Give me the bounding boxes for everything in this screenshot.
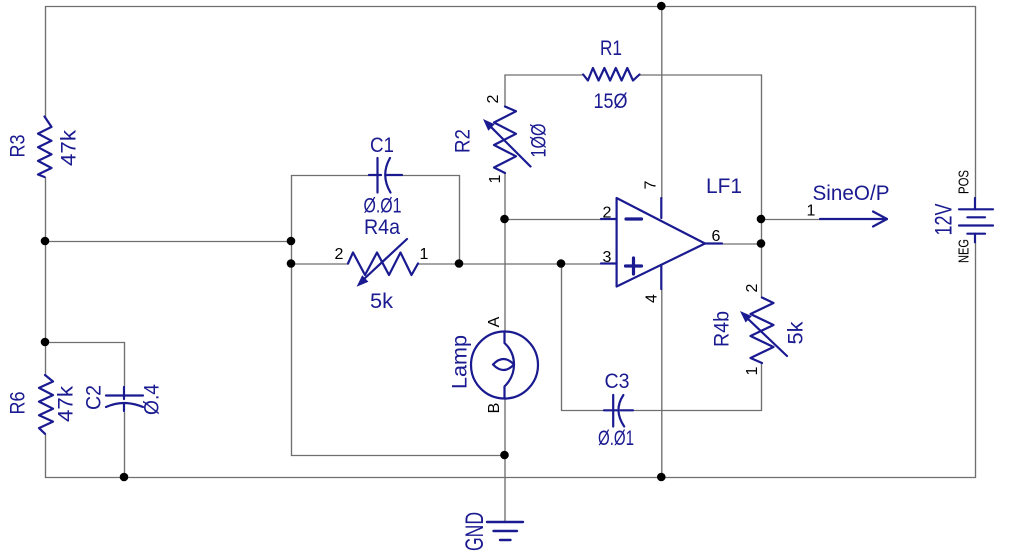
wire C2 top lead (124, 343, 126, 387)
svg-text:R2: R2 (452, 129, 475, 153)
wire column x661 upper (pin 7 supply) (661, 7, 663, 199)
svg-text:7: 7 (643, 180, 660, 189)
wire right rail upper (975, 7, 977, 199)
wire R4a left lead (292, 263, 349, 265)
svg-text:3: 3 (603, 249, 612, 266)
junction dot op-amp output (757, 239, 766, 248)
svg-text:SineO/P: SineO/P (813, 182, 890, 205)
potentiometer R2 arrow (489, 125, 531, 167)
svg-text:47k: 47k (58, 129, 81, 166)
battery 12V (959, 198, 993, 242)
wire R1 left lead (505, 74, 584, 76)
wire lamp bottom lead (504, 399, 506, 456)
wire bottom rail (46, 477, 976, 479)
wire inner column x291 (291, 176, 293, 456)
op-amp pin 4 stub (660, 265, 662, 289)
junction dot inner column y263 (287, 259, 296, 268)
svg-text:GND: GND (461, 512, 489, 551)
junction dot C3 branch (557, 259, 566, 268)
svg-text:15Ø: 15Ø (594, 90, 628, 113)
wire R4b bottom lead (761, 364, 763, 411)
wire C3 left branch (562, 264, 605, 411)
wire left rail middle (45, 178, 47, 376)
svg-text:R6: R6 (7, 392, 30, 415)
wire R4a right lead to op-amp pin 3 (419, 263, 601, 265)
wire C1 branch down (459, 176, 461, 265)
wire op-amp output (723, 243, 762, 245)
wire R2 to op-amp pin 2 (505, 219, 602, 221)
svg-text:2: 2 (744, 283, 761, 292)
wire left rail upper (45, 7, 47, 118)
svg-text:NEG: NEG (955, 239, 972, 263)
lamp (471, 332, 538, 399)
resistor R3 (38, 117, 52, 178)
capacitor C1 (369, 158, 402, 193)
wire R2 bottom lead (504, 174, 506, 220)
svg-text:6: 6 (712, 228, 721, 245)
wire top rail (46, 6, 976, 8)
svg-text:47k: 47k (55, 385, 78, 422)
junction dot lamp bottom node (500, 451, 509, 460)
lamp filament (493, 332, 514, 399)
resistor R1 (583, 68, 639, 81)
resistor R6 (39, 375, 53, 434)
svg-text:5k: 5k (370, 290, 394, 313)
svg-text:R1: R1 (600, 37, 622, 60)
wire column x761 (761, 75, 763, 298)
svg-text:2: 2 (335, 246, 344, 263)
wire R1 right lead (640, 74, 762, 76)
ground (487, 522, 523, 540)
wire column x661 lower (pin 4 supply) (661, 290, 663, 478)
op-amp pin 2 stub (601, 218, 617, 220)
junction dot output row (757, 215, 766, 224)
svg-text:1: 1 (744, 366, 761, 375)
junction dot bottom rail x124 (120, 473, 129, 482)
svg-text:B: B (486, 403, 503, 414)
potentiometer R4b (751, 298, 774, 364)
junction dot inner column y241 (287, 237, 296, 246)
op-amp plus input mark (626, 258, 642, 274)
svg-text:C1: C1 (370, 134, 394, 157)
svg-text:A: A (486, 316, 503, 327)
wire R2 top lead (504, 75, 506, 107)
potentiometer R4b arrow (746, 317, 787, 356)
svg-text:2: 2 (485, 94, 502, 103)
potentiometer R2 (494, 107, 516, 174)
wire right rail lower (975, 243, 977, 478)
op-amp minus input mark (626, 217, 642, 220)
svg-text:5k: 5k (785, 321, 808, 345)
svg-text:LF1: LF1 (706, 175, 742, 198)
svg-text:R4a: R4a (364, 216, 400, 239)
svg-text:Lamp: Lamp (449, 335, 472, 389)
svg-text:1: 1 (420, 246, 429, 263)
wire C1 right lead (403, 175, 460, 177)
wire C2 bottom lead (124, 413, 126, 478)
svg-text:2: 2 (603, 205, 612, 222)
junction dot R2 bottom (500, 215, 509, 224)
wire lamp node to ground (504, 456, 506, 522)
wire left rail lower (45, 434, 47, 477)
svg-text:C2: C2 (83, 385, 106, 410)
svg-text:1: 1 (487, 174, 504, 183)
wire C3 right lead (634, 410, 762, 412)
svg-text:1ØØ: 1ØØ (528, 124, 551, 158)
svg-text:C3: C3 (605, 370, 630, 393)
output arrow SineO/P (820, 212, 887, 227)
potentiometer R4a arrow (364, 239, 407, 279)
op-amp pin 3 stub (601, 262, 617, 264)
svg-text:R4b: R4b (711, 311, 734, 347)
potentiometer R4a (348, 253, 418, 276)
junction dot C1 branch (455, 259, 464, 268)
wire lamp branch bottom (292, 455, 506, 457)
op-amp pin 7 stub (660, 198, 662, 218)
wire node R3 to inner column (46, 241, 292, 243)
wire C1 left lead (292, 175, 370, 177)
capacitor C2 (106, 387, 143, 411)
wire output to arrow (762, 219, 821, 221)
svg-text:12V: 12V (930, 204, 957, 236)
op-amp U1 triangle (617, 198, 705, 287)
junction dot bottom rail x661 (657, 473, 666, 482)
wire node R6 to C2 (46, 342, 125, 344)
svg-text:Ø.Ø1: Ø.Ø1 (598, 427, 634, 450)
capacitor C3 (604, 395, 633, 427)
svg-text:1: 1 (807, 203, 816, 220)
op-amp pin 6 stub (705, 242, 722, 244)
svg-text:R3: R3 (7, 135, 30, 158)
junction dot left rail y342 (41, 338, 50, 347)
junction dot top rail x661 (657, 2, 666, 11)
svg-text:Ø.Ø1: Ø.Ø1 (364, 195, 402, 218)
junction dot left rail y241 (41, 237, 50, 246)
svg-text:POS: POS (955, 170, 972, 194)
svg-text:Ø.4: Ø.4 (141, 384, 164, 415)
wire lamp top lead (504, 220, 506, 333)
svg-text:4: 4 (644, 294, 661, 303)
